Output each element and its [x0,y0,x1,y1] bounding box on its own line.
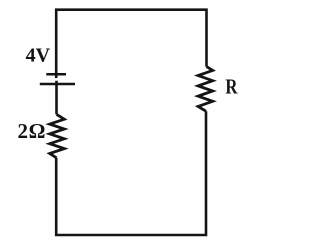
svg-text:R: R [225,76,238,99]
svg-text:4V: 4V [26,44,51,66]
svg-text:2Ω: 2Ω [18,119,47,143]
